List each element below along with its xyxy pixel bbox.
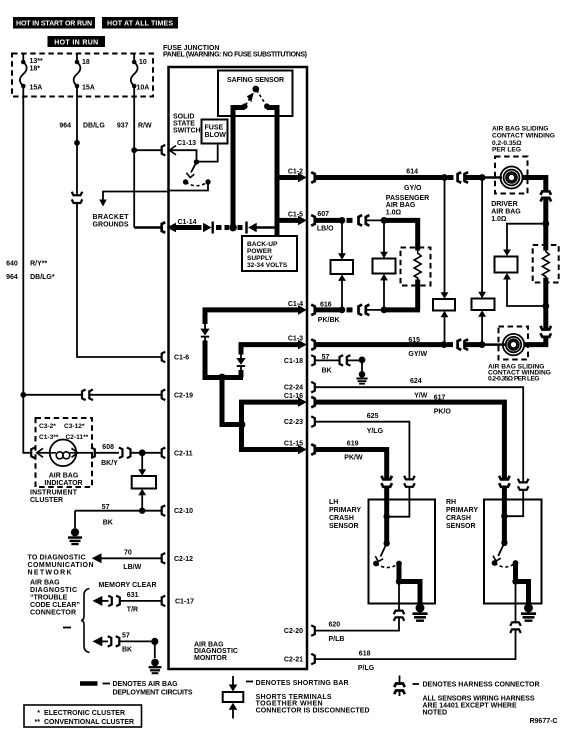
svg-text:964: 964 xyxy=(6,274,18,281)
svg-text:PRIMARY: PRIMARY xyxy=(329,507,361,514)
svg-text:NOTED: NOTED xyxy=(423,709,448,716)
svg-text:BLOW: BLOW xyxy=(205,132,227,139)
svg-text:SENSOR: SENSOR xyxy=(329,523,359,530)
svg-text:GY/W: GY/W xyxy=(408,351,427,358)
svg-text:HOT IN START OR RUN: HOT IN START OR RUN xyxy=(16,21,92,28)
svg-text:BK: BK xyxy=(103,519,113,526)
svg-text:C3-2*: C3-2* xyxy=(39,423,56,430)
svg-text:57: 57 xyxy=(322,354,330,361)
svg-text:608: 608 xyxy=(102,444,114,451)
svg-text:C1-3**: C1-3** xyxy=(39,434,59,441)
svg-text:15A: 15A xyxy=(30,85,43,92)
svg-text:AIR BAG: AIR BAG xyxy=(386,202,416,209)
svg-text:BK: BK xyxy=(322,368,332,375)
svg-text:617: 617 xyxy=(434,395,446,402)
svg-text:INDICATOR: INDICATOR xyxy=(44,480,82,487)
svg-text:964: 964 xyxy=(59,123,71,130)
svg-text:SUPPLY: SUPPLY xyxy=(247,255,273,262)
svg-text:INSTRUMENT: INSTRUMENT xyxy=(30,490,78,497)
svg-text:C1-14: C1-14 xyxy=(178,219,197,226)
svg-text:Y/LG: Y/LG xyxy=(367,428,384,435)
svg-text:DIAGNOSTIC: DIAGNOSTIC xyxy=(30,587,77,594)
svg-text:P/LG: P/LG xyxy=(358,665,375,672)
svg-text:PK/W: PK/W xyxy=(344,455,363,462)
svg-text:614: 614 xyxy=(406,168,418,175)
svg-text:CONVENTIONAL CLUSTER: CONVENTIONAL CLUSTER xyxy=(44,719,134,726)
svg-text:CLUSTER: CLUSTER xyxy=(30,497,63,504)
svg-text:AIR BAG: AIR BAG xyxy=(30,580,60,587)
svg-text:R/W: R/W xyxy=(138,123,152,130)
svg-text:BK: BK xyxy=(122,646,132,653)
svg-text:PRIMARY: PRIMARY xyxy=(446,507,478,514)
svg-text:C1-6: C1-6 xyxy=(174,355,189,362)
svg-text:C2-12: C2-12 xyxy=(174,556,193,563)
svg-text:CODE CLEAR”: CODE CLEAR” xyxy=(30,602,80,609)
svg-text:32-34 VOLTS: 32-34 VOLTS xyxy=(247,262,288,269)
svg-text:C2-24: C2-24 xyxy=(284,385,303,392)
svg-text:FUSE: FUSE xyxy=(205,125,224,132)
svg-text:10A: 10A xyxy=(137,85,150,92)
svg-text:HOT IN RUN: HOT IN RUN xyxy=(54,39,98,46)
svg-text:MEMORY CLEAR: MEMORY CLEAR xyxy=(99,582,157,589)
svg-text:C3-12*: C3-12* xyxy=(64,423,85,430)
svg-text:DENOTES AIR BAG: DENOTES AIR BAG xyxy=(113,681,179,688)
svg-text:CRASH: CRASH xyxy=(446,515,471,522)
svg-text:LH: LH xyxy=(329,499,338,506)
svg-text:C2-20: C2-20 xyxy=(284,628,303,635)
svg-text:618: 618 xyxy=(359,650,371,657)
svg-text:T/R: T/R xyxy=(127,606,138,613)
svg-text:SWITCH: SWITCH xyxy=(173,128,201,135)
svg-text:MONITOR: MONITOR xyxy=(194,655,227,662)
svg-text:DENOTES HARNESS CONNECTOR: DENOTES HARNESS CONNECTOR xyxy=(423,682,540,689)
svg-text:13**: 13** xyxy=(30,58,44,65)
svg-text:LB/O: LB/O xyxy=(317,226,334,233)
svg-text:HOT AT ALL TIMES: HOT AT ALL TIMES xyxy=(107,21,173,28)
svg-text:CONTACT WINDING: CONTACT WINDING xyxy=(492,132,555,139)
svg-text:624: 624 xyxy=(410,378,422,385)
svg-text:DRIVER: DRIVER xyxy=(491,201,517,208)
svg-text:PASSENGER: PASSENGER xyxy=(386,195,429,202)
svg-text:615: 615 xyxy=(408,337,420,344)
svg-text:R9677-C: R9677-C xyxy=(529,718,557,725)
svg-text:PANEL (WARNING: NO FUSE SUBSTI: PANEL (WARNING: NO FUSE SUBSTITUTIONS) xyxy=(163,52,307,59)
svg-text:57: 57 xyxy=(122,633,130,640)
svg-text:CONNECTOR IS DISCONNECTED: CONNECTOR IS DISCONNECTED xyxy=(256,708,370,715)
svg-text:619: 619 xyxy=(347,441,359,448)
svg-text:GY/O: GY/O xyxy=(404,185,422,192)
svg-text:*: * xyxy=(37,710,40,717)
svg-text:AIR BAG: AIR BAG xyxy=(491,209,521,216)
svg-text:10: 10 xyxy=(139,59,147,66)
svg-text:BACK-UP: BACK-UP xyxy=(247,241,278,248)
svg-text:620: 620 xyxy=(329,621,341,628)
svg-text:GROUNDS: GROUNDS xyxy=(93,222,129,229)
svg-text:COMMUNICATION: COMMUNICATION xyxy=(28,562,94,569)
svg-text:LB/W: LB/W xyxy=(123,564,141,571)
svg-text:SOLID: SOLID xyxy=(173,114,194,121)
svg-text:C1-18: C1-18 xyxy=(284,358,303,365)
svg-text:ALL SENSORS WIRING HARNESS: ALL SENSORS WIRING HARNESS xyxy=(423,695,535,702)
svg-text:C1-13: C1-13 xyxy=(177,140,196,147)
svg-text:POWER: POWER xyxy=(247,248,272,255)
svg-text:Y/W: Y/W xyxy=(414,392,428,399)
svg-text:1.0Ω: 1.0Ω xyxy=(491,216,507,223)
svg-text:BK/Y: BK/Y xyxy=(101,460,118,467)
svg-text:607: 607 xyxy=(317,211,329,218)
svg-text:C1-17: C1-17 xyxy=(175,598,194,605)
svg-text:BRACKET: BRACKET xyxy=(93,214,130,221)
svg-text:AIR BAG: AIR BAG xyxy=(49,473,79,480)
svg-text:AIR BAG SLIDING: AIR BAG SLIDING xyxy=(492,125,548,132)
svg-text:SENSOR: SENSOR xyxy=(446,523,476,530)
svg-text:R/Y**: R/Y** xyxy=(30,261,47,268)
svg-text:18: 18 xyxy=(82,59,90,66)
svg-text:70: 70 xyxy=(124,550,132,557)
svg-text:625: 625 xyxy=(367,413,379,420)
svg-text:631: 631 xyxy=(127,592,139,599)
svg-text:TO DIAGNOSTIC: TO DIAGNOSTIC xyxy=(28,555,86,562)
svg-text:NETWORK: NETWORK xyxy=(28,570,72,577)
svg-text:DB/LG: DB/LG xyxy=(83,123,105,130)
svg-text:C2-10: C2-10 xyxy=(174,508,193,515)
svg-text:ARE 14401 EXCEPT WHERE: ARE 14401 EXCEPT WHERE xyxy=(423,702,517,709)
svg-text:DB/LG*: DB/LG* xyxy=(30,274,55,281)
svg-text:RH: RH xyxy=(446,499,456,506)
svg-text:ELECTRONIC CLUSTER: ELECTRONIC CLUSTER xyxy=(44,710,125,717)
svg-text:DEPLOYMENT CIRCUITS: DEPLOYMENT CIRCUITS xyxy=(113,690,193,697)
svg-text:“TROUBLE: “TROUBLE xyxy=(30,595,68,602)
svg-text:PER LEG: PER LEG xyxy=(492,147,521,154)
svg-text:CONNECTOR: CONNECTOR xyxy=(30,610,76,617)
svg-text:640: 640 xyxy=(6,261,18,268)
svg-text:0.2-0.35Ω PER LEG: 0.2-0.35Ω PER LEG xyxy=(488,375,540,382)
svg-text:PK/O: PK/O xyxy=(434,408,452,415)
svg-text:C2-11: C2-11 xyxy=(174,450,193,457)
svg-text:P/LB: P/LB xyxy=(329,636,345,643)
svg-text:SAFING SENSOR: SAFING SENSOR xyxy=(227,77,284,84)
svg-text:15A: 15A xyxy=(82,85,95,92)
svg-text:1.0Ω: 1.0Ω xyxy=(386,210,402,217)
svg-text:**: ** xyxy=(35,719,41,726)
svg-text:STATE: STATE xyxy=(173,121,195,128)
svg-text:616: 616 xyxy=(320,302,332,309)
svg-text:57: 57 xyxy=(102,504,110,511)
svg-text:C2-21: C2-21 xyxy=(284,657,303,664)
svg-text:C2-23: C2-23 xyxy=(284,419,303,426)
svg-text:937: 937 xyxy=(117,123,129,130)
svg-text:PK/BK: PK/BK xyxy=(318,317,340,324)
svg-text:DENOTES SHORTING BAR: DENOTES SHORTING BAR xyxy=(256,680,349,687)
svg-text:CRASH: CRASH xyxy=(329,515,354,522)
svg-text:C2-19: C2-19 xyxy=(174,392,193,399)
svg-text:18*: 18* xyxy=(30,66,41,73)
